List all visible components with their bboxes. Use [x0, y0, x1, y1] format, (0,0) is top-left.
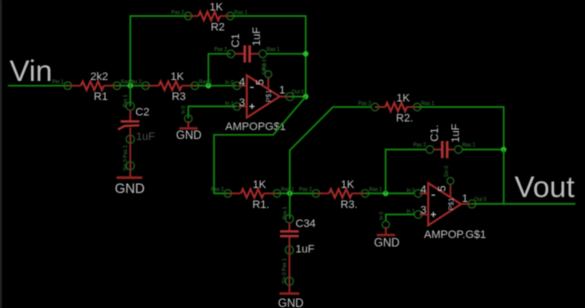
- svg-text:In 0: In 0: [406, 188, 415, 194]
- pin 1 (output): [280, 96, 290, 98]
- svg-text:C34: C34: [296, 218, 316, 230]
- svg-text:Ras 1: Ras 1: [369, 187, 382, 193]
- resistor R3.: [299, 179, 382, 211]
- svg-text:Pas 2: Pas 2: [299, 187, 312, 193]
- wire Vin input: [8, 85, 68, 87]
- svg-text:GND: GND: [115, 181, 145, 196]
- wire C1. to right vertical: [462, 149, 504, 151]
- svg-text:1: 1: [462, 193, 468, 205]
- wire R1. to R3.: [277, 192, 316, 194]
- wire to R2.: [333, 106, 372, 108]
- svg-text:Sin 0 Pas 1: Sin 0 Pas 1: [123, 145, 129, 171]
- svg-text:4: 4: [420, 184, 426, 196]
- svg-text:1K: 1K: [253, 179, 267, 191]
- ground GND (op-amp1 pin 3): [176, 105, 202, 142]
- svg-text:AMPOP.G$1: AMPOP.G$1: [424, 229, 486, 241]
- wire op-amp1 output to R1.: [214, 97, 306, 194]
- node junction J2 (R3/C1/pin4): [206, 83, 212, 89]
- svg-text:Pas 2: Pas 2: [211, 187, 224, 193]
- svg-text:GND: GND: [278, 298, 304, 308]
- svg-text:1K: 1K: [210, 2, 224, 14]
- resistor R1.: [211, 179, 294, 211]
- svg-text:In 0: In 0: [181, 105, 187, 114]
- svg-text:C1: C1: [230, 33, 242, 47]
- wire junction5 down to C34: [289, 193, 291, 218]
- svg-text:GND: GND: [176, 130, 202, 142]
- svg-text:R1.: R1.: [252, 199, 269, 211]
- svg-text:Pin 0: Pin 0: [262, 59, 268, 71]
- svg-text:In 0: In 0: [379, 211, 385, 220]
- wire R3. to op-amp2 pin 4: [365, 192, 414, 194]
- svg-text:1: 1: [279, 85, 285, 97]
- svg-text:Vin: Vin: [10, 55, 53, 88]
- node junction J3 (C1/feedback): [303, 51, 309, 57]
- svg-text:R2: R2: [211, 22, 225, 34]
- left window edge: [0, 0, 2, 308]
- pin 5 (power): [449, 184, 451, 196]
- ground GND (op-amp2 pin 3): [374, 211, 400, 249]
- svg-text:1uF: 1uF: [296, 244, 315, 256]
- pin 5 (power): [267, 78, 269, 89]
- svg-text:1uF: 1uF: [450, 123, 462, 142]
- svg-text:Sin 0: Sin 0: [444, 166, 450, 178]
- svg-text:Out 0: Out 0: [292, 90, 304, 96]
- capacitor C34: [280, 206, 316, 255]
- op-amp U2 AMPOP.G$1: [406, 166, 486, 241]
- svg-text:1K: 1K: [341, 179, 355, 191]
- svg-text:Pas 2: Pas 2: [214, 47, 227, 53]
- svg-text:C2: C2: [135, 107, 149, 119]
- svg-text:2k2: 2k2: [90, 71, 108, 83]
- wire R2. left to junction5: [290, 107, 333, 193]
- wire pin3 to GND: [188, 106, 237, 118]
- ground GND (below C2): [115, 176, 145, 196]
- svg-text:1uF: 1uF: [136, 131, 155, 143]
- svg-text:1K: 1K: [171, 71, 185, 83]
- wire R1 to R3: [117, 85, 146, 87]
- svg-text:Ras 1: Ras 1: [234, 10, 247, 16]
- svg-text:R1: R1: [94, 91, 108, 103]
- wire C2 to GND: [129, 128, 131, 177]
- resistor R1: [52, 71, 134, 103]
- svg-text:GND: GND: [374, 237, 400, 249]
- svg-text:1K: 1K: [396, 93, 410, 105]
- node junction J4 (op-amp1 output): [303, 94, 309, 100]
- svg-text:Sin 0 Pas 1: Sin 0 Pas 1: [282, 258, 288, 284]
- pin 1 (output): [461, 203, 472, 205]
- svg-text:R3: R3: [172, 91, 186, 103]
- capacitor C1: [214, 27, 280, 75]
- svg-text:Vout: Vout: [515, 171, 576, 204]
- svg-text:R2.: R2.: [396, 113, 413, 125]
- svg-text:In 0: In 0: [225, 80, 234, 86]
- op-amp U1 AMPOPG$1: [225, 59, 306, 133]
- svg-text:Ras 1: Ras 1: [267, 47, 280, 53]
- wire C34 to GND: [288, 237, 290, 292]
- wire R3 to op-amp pin 4: [195, 85, 237, 87]
- resistor R2.: [358, 93, 434, 125]
- svg-text:Ras 1: Ras 1: [421, 101, 434, 107]
- resistor R3: [129, 71, 212, 103]
- svg-text:3: 3: [239, 97, 245, 109]
- svg-text:1uF: 1uF: [251, 27, 263, 46]
- resistor R2: [171, 2, 247, 34]
- wire R2 to feedback vertical: [230, 16, 305, 97]
- wire junction6 up to C1.: [386, 150, 427, 194]
- node junction J1 (R1/R3/C2/R2): [128, 83, 134, 89]
- svg-text:4: 4: [239, 76, 245, 88]
- svg-text:5: 5: [255, 79, 267, 85]
- wire op-amp2 output to Vout: [472, 203, 576, 205]
- node junction J7 (C1./R2./output): [501, 147, 507, 153]
- capacitor C2 (polarized): [118, 94, 155, 143]
- svg-text:R3.: R3.: [340, 199, 357, 211]
- svg-text:5: 5: [437, 186, 449, 192]
- svg-text:P$1: P$1: [448, 198, 455, 211]
- wire junction7 down to output: [503, 150, 505, 204]
- wire C1 to feedback vertical: [267, 53, 306, 55]
- wire R2. to right vertical: [417, 107, 504, 150]
- svg-text:Pas 2: Pas 2: [171, 10, 184, 16]
- wire junction2 up to C1: [208, 54, 231, 86]
- wire junction1 down to C2: [129, 86, 131, 107]
- svg-text:P$1: P$1: [266, 90, 273, 103]
- svg-text:C1.: C1.: [429, 125, 441, 142]
- svg-text:3: 3: [420, 205, 426, 217]
- node junction J5 (R1./R3./C34/R2.): [287, 191, 293, 197]
- ground GND (below C34): [278, 292, 304, 308]
- capacitor C1.: [413, 123, 475, 158]
- wire junction1 up to R2: [130, 16, 188, 86]
- node junction J6 (R3./C1./pin4): [383, 191, 389, 197]
- svg-text:Pas 2: Pas 2: [413, 143, 426, 149]
- svg-text:Pin 1: Pin 1: [52, 80, 64, 86]
- svg-text:Ras 1: Ras 1: [462, 143, 475, 149]
- wire pin3 to GND: [386, 215, 415, 222]
- svg-text:Out 0: Out 0: [474, 197, 486, 203]
- svg-text:Pas 2: Pas 2: [358, 101, 371, 107]
